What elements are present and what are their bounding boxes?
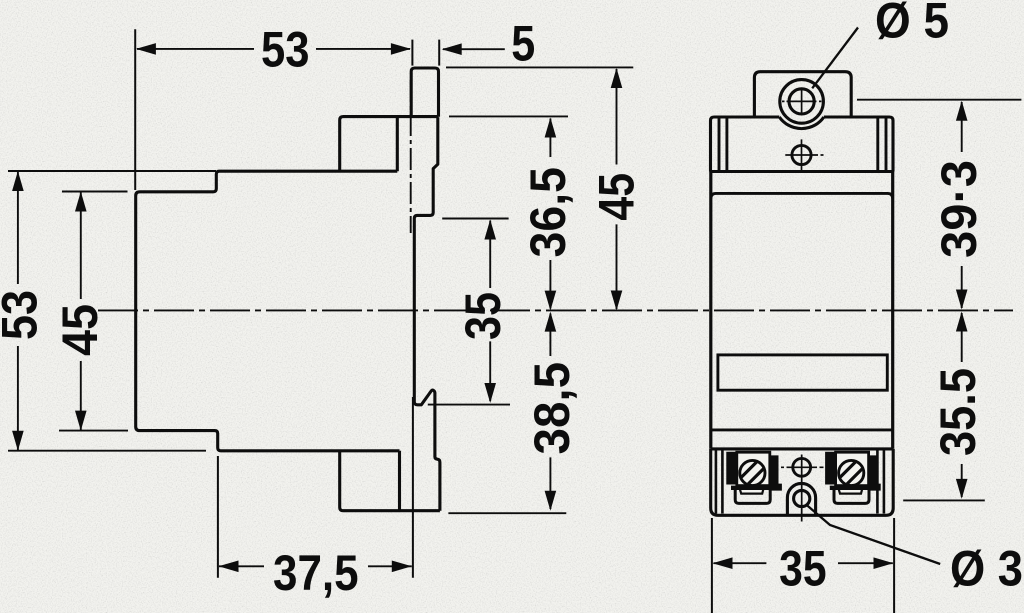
extension line 35.5 bottom (Ø3 center): [903, 499, 985, 501]
dimension 38,5 vertical mid: [545, 312, 557, 511]
top cap: [754, 72, 851, 117]
leader line Ø3: [806, 504, 940, 564]
right terminal (screw clamp): [825, 452, 881, 504]
body side edges: [711, 172, 893, 449]
extension line 45-left bottom: [59, 430, 128, 432]
head ear inner lines: [719, 117, 886, 172]
dimension 53 vertical left: [12, 171, 24, 451]
extension tick x=439.2 top: [438, 40, 440, 66]
head small circle crosshair: [785, 139, 823, 171]
terminal recess black areas: [726, 452, 782, 491]
terminal block top line: [711, 447, 894, 450]
bottom Ø3 hole circle: [794, 490, 810, 506]
dimension 45 vertical left: [75, 192, 87, 431]
dimension 5 horizontal top: [442, 43, 505, 55]
extension lines bottom 35: [712, 518, 894, 613]
Ø5 counterbore arc: [779, 117, 824, 129]
Ø5 hole inner circle: [789, 89, 814, 114]
bottom circles crosshair: [781, 455, 824, 522]
svg-text:Ø 3: Ø 3: [950, 541, 1023, 597]
svg-text:53: 53: [0, 290, 47, 340]
extension line 39.3 top (hole center): [857, 99, 1021, 101]
dimension 35 vertical mid: [484, 220, 496, 404]
terminal screw box: [737, 452, 770, 485]
extension line 38,5 bottom (y=513.2): [448, 512, 566, 514]
svg-text:35.5: 35.5: [930, 368, 986, 456]
extension line 35-mid top (y=218.5): [442, 218, 508, 220]
terminal block side ribs: [716, 449, 884, 514]
svg-text:38,5: 38,5: [524, 362, 580, 455]
svg-text:36,5: 36,5: [520, 167, 576, 258]
extension tick x=412.4 top: [411, 40, 413, 66]
dimension 53 horizontal top: [136, 43, 411, 55]
svg-text:35: 35: [779, 540, 827, 596]
main horizontal center line: [98, 309, 1013, 311]
top DIN claw tab: [411, 68, 438, 117]
Ø5 hole outer circle: [780, 80, 824, 124]
left terminal (screw clamp): [726, 452, 782, 504]
dimension 36,5 vertical mid: [545, 118, 557, 311]
svg-text:39·3: 39·3: [931, 160, 987, 258]
Ø5 crosshair: [782, 90, 822, 114]
terminal screw head with slot: [740, 460, 765, 485]
side view main silhouette: [136, 171, 400, 451]
extension line 35-mid bottom (y=404.6): [428, 404, 510, 406]
dimension 35.5 vertical right: [956, 312, 968, 499]
extension line 45-mid top (y=67.4): [446, 66, 633, 68]
body line y=429.9: [711, 428, 893, 431]
extension line 45-left top: [62, 191, 128, 193]
extension line 36,5 top (y=116.4): [449, 115, 568, 117]
bottom center arch: [787, 483, 815, 514]
mounting plane center line: [410, 80, 412, 233]
svg-text:37,5: 37,5: [273, 545, 359, 601]
head small circle: [792, 145, 811, 164]
extension line left body bottom (53 vertical): [8, 450, 206, 452]
dimension 39.3 vertical right: [956, 101, 968, 310]
svg-text:5: 5: [511, 15, 535, 71]
tab inner edge, mounting face and bottom latch hook: [414, 117, 440, 511]
dimension 35 bottom (front): [713, 557, 894, 569]
svg-text:53: 53: [261, 22, 310, 78]
bottom upper small circle: [793, 458, 811, 476]
svg-text:35: 35: [455, 292, 511, 340]
dimension 45 vertical mid: [611, 68, 623, 311]
bottom mounting flange (square): [340, 451, 440, 511]
terminal block outline: [711, 449, 894, 515]
leader line Ø5: [812, 28, 858, 89]
body band line y=193: [711, 193, 893, 198]
svg-text:45: 45: [52, 304, 108, 356]
svg-text:45: 45: [589, 173, 645, 221]
extension line left body top (53 vertical): [8, 170, 216, 172]
extension line x=135.7 above body: [134, 29, 136, 190]
svg-text:Ø 5: Ø 5: [875, 0, 949, 49]
head bottom line: [711, 170, 894, 173]
head outline: [711, 117, 894, 172]
label plate: [718, 355, 887, 390]
terminal wire clamp bracket: [731, 486, 777, 490]
top mounting flange (square): [340, 117, 439, 172]
dimension 37,5 bottom: [218, 397, 413, 578]
